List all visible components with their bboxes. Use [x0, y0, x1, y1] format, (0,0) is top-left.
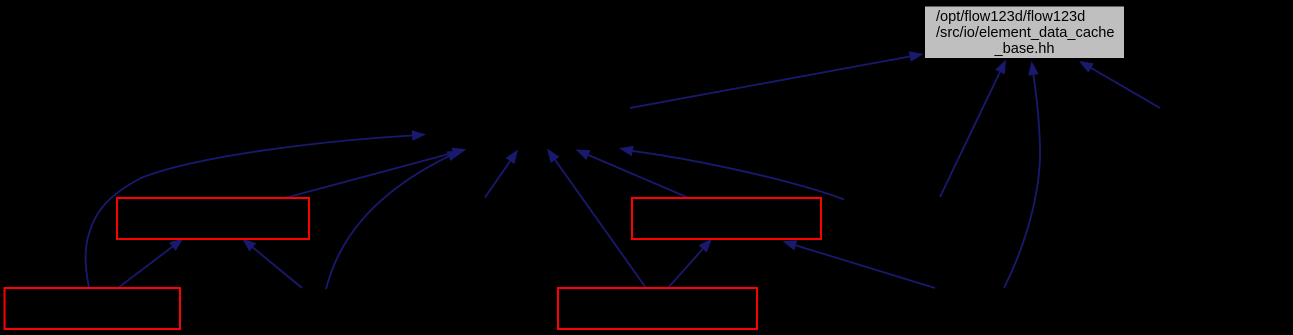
wire edge E1 node-invB to root: [630, 57, 910, 109]
node root /opt/flow123d/flow123d/src/io/element_data_cache_base.hh: [925, 6, 1125, 59]
wire edge E3 node-inv3b to root (curved): [1004, 75, 1040, 288]
svg-text:/src/io/element_data_cache: /src/io/element_data_cache: [936, 25, 1114, 41]
node box1 (red): [117, 198, 309, 239]
wire edge E2 node-inv2a to root: [940, 72, 1000, 197]
wire edge E9 node-inv3a to box1: [253, 247, 302, 288]
node box2 (red): [5, 288, 181, 329]
wire edge C1 box2 to node-invA (curved): [86, 136, 412, 289]
wire edge E7 box3 to node-invB: [588, 155, 690, 199]
wire edge C2 node-inv3a to node-invA (curved): [326, 156, 449, 289]
wire edge E12 box4 to node-invB: [555, 160, 646, 288]
wire edge E4 node-inv1c to root: [1091, 68, 1160, 108]
node box3 (red): [632, 198, 821, 239]
wire edge E8 box2 to box1: [118, 247, 172, 288]
wire edge E13 box4 to box3: [668, 249, 703, 288]
wire edge E6 node-inv2c to node-invB (curved): [633, 151, 844, 200]
wire edge E11 node-inv2b to node-invB: [485, 161, 510, 198]
wire edge E5 node-inv3b to box3: [796, 245, 935, 288]
svg-text:_base.hh: _base.hh: [993, 41, 1054, 57]
svg-text:/opt/flow123d/flow123d: /opt/flow123d/flow123d: [936, 9, 1085, 25]
node box4 (red): [558, 288, 757, 329]
wire edge E10 box1 to node-invA: [283, 153, 453, 199]
